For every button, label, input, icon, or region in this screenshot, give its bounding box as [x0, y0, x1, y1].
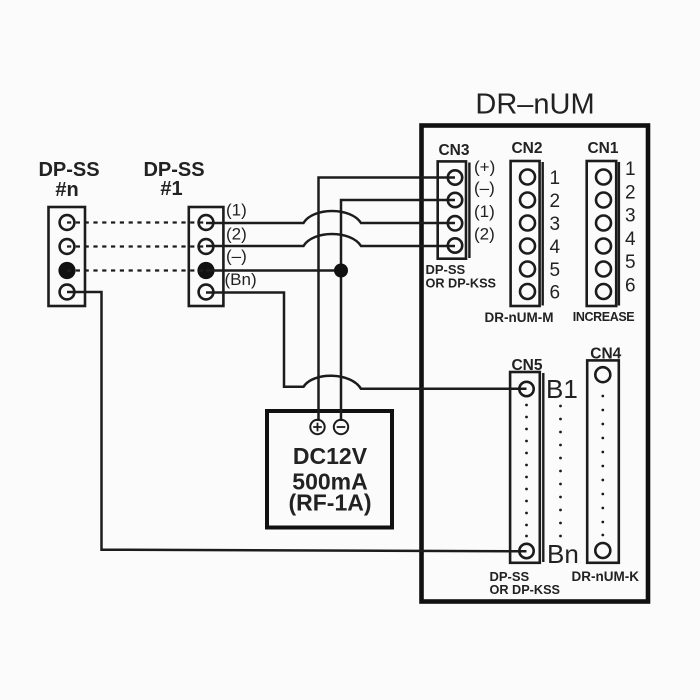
svg-text:2: 2 [625, 183, 636, 204]
label connector DP-SS #n [38, 159, 99, 201]
svg-text:CN2: CN2 [511, 140, 542, 157]
svg-text:DC12V: DC12V [293, 443, 368, 469]
svg-text:#1: #1 [160, 178, 182, 200]
CN4 body with top and bottom pins [587, 360, 619, 562]
wire DP-SS #n pin4 to CN5 Bn [67, 292, 527, 551]
connector CN1 [573, 140, 636, 324]
svg-text:(–): (–) [474, 179, 495, 198]
CN2 pin numbers 1-6 [550, 168, 561, 304]
minus terminal [334, 420, 348, 434]
connector CN5 [490, 357, 579, 597]
CN2 body and pins 1-6 [511, 161, 543, 306]
svg-text:Bn: Bn [547, 539, 579, 569]
svg-text:DP-SS: DP-SS [426, 262, 466, 277]
dashed wire minus line between DP-SS #n and DP-SS #1 [67, 269, 206, 271]
connector DP-SS #n [49, 207, 86, 306]
dashed wire bus line 2 between DP-SS #n and DP-SS #1 [67, 245, 206, 247]
svg-text:3: 3 [625, 206, 636, 227]
svg-text:CN1: CN1 [587, 140, 618, 157]
wire CN3 (-) to DC12V minus terminal [341, 200, 455, 421]
svg-text:DP-SS: DP-SS [490, 569, 530, 584]
svg-text:(1): (1) [226, 201, 247, 220]
DR-nUM unit outline [422, 126, 649, 602]
wire CN3 (+) to DC12V plus terminal [319, 178, 456, 422]
svg-text:5: 5 [625, 252, 636, 273]
svg-text:DR-nUM-M: DR-nUM-M [485, 310, 554, 325]
power supply DC12V 500mA (RF-1A) [267, 411, 392, 528]
svg-text:DR-nUM-K: DR-nUM-K [572, 569, 640, 584]
svg-text:(2): (2) [226, 225, 247, 244]
junction dot at minus net [334, 264, 348, 278]
wire DP-SS #1 pin4 (Bn) to CN5 B1 with hop [206, 293, 527, 389]
svg-text:#n: #n [55, 179, 78, 201]
plus terminal [310, 420, 324, 434]
pin 3 (minus, filled) of DP-SS #1 [197, 262, 214, 279]
pin 3 (minus, filled) of DP-SS #n [58, 262, 75, 279]
connector CN4 [572, 345, 640, 584]
CN5 body with pins B1 and Bn [510, 372, 543, 563]
svg-text:3: 3 [550, 214, 561, 235]
svg-text:(–): (–) [226, 247, 247, 266]
wire DP-SS #1 pin1 (1) to CN3 pin3 with hop [206, 211, 455, 223]
CN5 dotted pin column [525, 404, 528, 538]
svg-text:4: 4 [625, 229, 636, 250]
connector CN3 [426, 142, 497, 291]
connector DP-SS #1 [189, 207, 224, 306]
svg-text:(+): (+) [474, 158, 495, 177]
DC12V power supply body [267, 411, 392, 528]
svg-text:OR DP-KSS: OR DP-KSS [490, 583, 561, 597]
svg-text:OR DP-KSS: OR DP-KSS [426, 277, 497, 291]
svg-text:(RF-1A): (RF-1A) [288, 490, 371, 516]
svg-text:4: 4 [550, 237, 561, 258]
svg-text:DP-SS: DP-SS [38, 159, 99, 181]
wire DP-SS #1 pin2 (2) to CN3 pin4 with hop [206, 234, 455, 246]
label connector DP-SS #1 [143, 159, 204, 200]
CN1 pin numbers 1-6 [625, 159, 636, 297]
CN4 dotted pin column [601, 395, 604, 537]
wire DP-SS #1 minus to junction [206, 269, 341, 272]
svg-text:6: 6 [625, 276, 636, 297]
svg-text:(1): (1) [474, 202, 495, 221]
svg-text:DR–nUM: DR–nUM [475, 89, 594, 121]
svg-text:1: 1 [625, 159, 636, 180]
svg-text:CN3: CN3 [438, 142, 469, 159]
connector CN2 [485, 140, 561, 325]
svg-text:1: 1 [550, 168, 561, 189]
dashed wire bus line 1 between DP-SS #n and DP-SS #1 [67, 221, 206, 223]
svg-text:(2): (2) [474, 225, 495, 244]
svg-text:5: 5 [550, 260, 561, 281]
CN1 body and pins 1-6 [587, 161, 619, 306]
dotted column between B1 and Bn [559, 405, 562, 538]
svg-text:6: 6 [550, 283, 561, 304]
svg-text:INCREASE: INCREASE [573, 310, 634, 324]
svg-text:(Bn): (Bn) [225, 270, 257, 289]
svg-text:2: 2 [550, 191, 561, 212]
CN3 body and pins 1-4 [438, 161, 470, 258]
svg-text:B1: B1 [546, 374, 578, 404]
